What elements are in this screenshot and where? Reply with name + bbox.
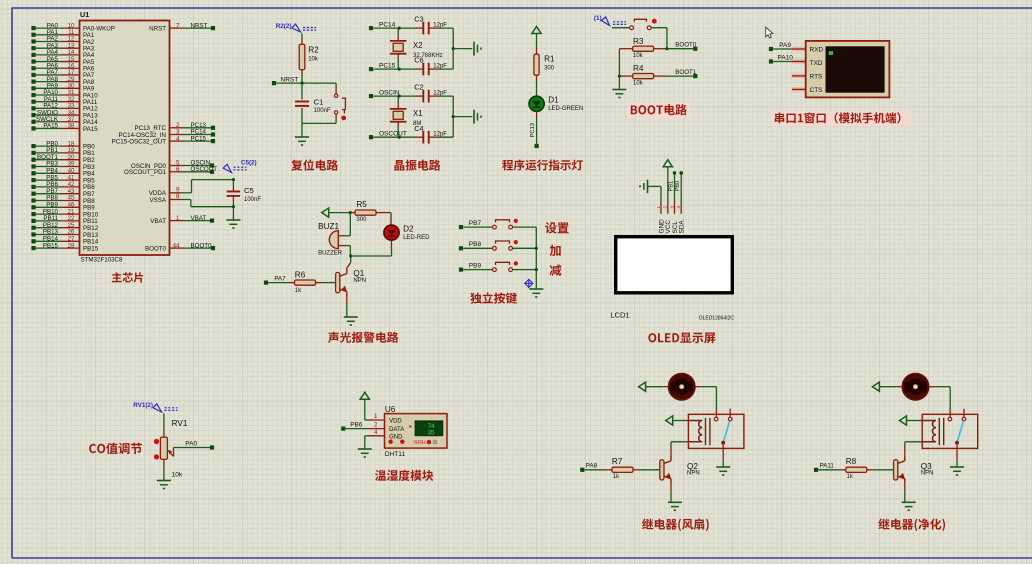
svg-text:32.768KHz: 32.768KHz xyxy=(413,53,443,59)
label 温湿度模块 xyxy=(375,470,433,481)
svg-text:BOOT0: BOOT0 xyxy=(145,245,167,252)
ground buttons xyxy=(529,288,543,290)
svg-text:10k: 10k xyxy=(172,472,183,479)
power symbol DHT11 xyxy=(360,392,369,399)
svg-text:(1): (1) xyxy=(594,15,602,22)
push button PB7 xyxy=(493,225,497,229)
wire Q2 emitter to ground xyxy=(670,484,672,491)
pin PA9 (pin 30) with wire and terminal xyxy=(34,87,63,89)
wire PA9 to RXD xyxy=(792,47,806,52)
pot adjust buttons xyxy=(154,439,159,444)
svg-text:PC15: PC15 xyxy=(379,62,396,69)
wire OLED SDA to PB0 xyxy=(680,175,682,202)
terminal PC14 xyxy=(369,26,373,30)
pin PA3 (pin 13) with wire and terminal xyxy=(34,47,63,49)
terminal PA9 xyxy=(769,47,773,51)
svg-text:PA8: PA8 xyxy=(586,463,598,470)
pin PB15 (pin 28) with wire and terminal xyxy=(34,247,63,249)
pin PC14 (pin 3) with wire and terminal xyxy=(170,134,185,136)
svg-text:1: 1 xyxy=(176,215,180,222)
power symbol relay coil xyxy=(900,416,907,425)
svg-text:NRST: NRST xyxy=(191,22,208,29)
power symbol OLED VCC xyxy=(667,167,669,201)
pin PA15 (pin 38) with wire and terminal xyxy=(34,127,63,129)
svg-text:PB8: PB8 xyxy=(469,241,482,248)
svg-text:NPN: NPN xyxy=(687,471,700,477)
wire Q3 collector to coil xyxy=(904,446,906,455)
DHT11 U6 body xyxy=(385,414,448,449)
ground crystal (sideways) xyxy=(473,42,475,56)
svg-text:PB0: PB0 xyxy=(675,181,681,192)
resistor R5 300 xyxy=(350,212,355,214)
wire VDD pin xyxy=(365,419,368,421)
pin PB3 (pin 39) with wire and terminal xyxy=(34,166,63,168)
power symbol motor Q2 xyxy=(639,382,646,391)
svg-text:C5(2): C5(2) xyxy=(241,159,257,166)
terminal PB6 xyxy=(341,427,345,431)
svg-text:12pF: 12pF xyxy=(433,22,447,28)
svg-text:PB15: PB15 xyxy=(43,242,59,249)
svg-text:VDD: VDD xyxy=(389,419,402,425)
ground under C5 xyxy=(226,219,240,221)
svg-text:100nF: 100nF xyxy=(314,108,331,114)
svg-text:PB1: PB1 xyxy=(668,181,674,192)
LCD1 OLED display body xyxy=(616,237,733,293)
svg-text:R8: R8 xyxy=(846,457,857,466)
relay RL-Q3 box xyxy=(922,414,978,448)
relay switch xyxy=(714,417,718,421)
node NRST-R2-C1 junction xyxy=(300,82,303,85)
label 晶振电路 xyxy=(394,160,440,171)
svg-text:OSCIN: OSCIN xyxy=(379,89,400,96)
wire R5 to D2 xyxy=(390,213,392,218)
pin SWCLK (pin 37) with wire and terminal xyxy=(34,121,63,123)
terminal NRST xyxy=(272,81,276,85)
pin PA0 (pin 10) with wire and terminal xyxy=(34,27,63,29)
resistor R1 300 xyxy=(536,48,538,55)
LED D1 LED-GREEN xyxy=(529,96,544,111)
svg-text:10k: 10k xyxy=(633,53,644,59)
pin BOOT0 (pin 44) with wire and terminal xyxy=(170,247,185,249)
svg-text:6: 6 xyxy=(176,166,180,173)
svg-text:X1: X1 xyxy=(413,109,423,118)
svg-text:NPN: NPN xyxy=(353,278,366,284)
label 加 xyxy=(550,245,561,256)
svg-text:1: 1 xyxy=(374,413,378,420)
svg-text:4: 4 xyxy=(676,206,681,209)
pin PB14 (pin 27) with wire and terminal xyxy=(34,240,63,242)
terminal PC13 bottom xyxy=(535,144,539,148)
wire buzzer bottom to collector node xyxy=(349,246,351,256)
svg-text:38: 38 xyxy=(68,123,75,130)
svg-text:R7: R7 xyxy=(612,457,623,466)
motor Q2-circuit xyxy=(669,374,695,400)
svg-text:R5: R5 xyxy=(356,200,367,209)
capacitor C3 12pF xyxy=(416,27,424,29)
svg-text:OLED12864I2C: OLED12864I2C xyxy=(699,316,735,322)
svg-text:Q3: Q3 xyxy=(921,462,932,471)
terminal PA10 xyxy=(769,59,773,63)
relay RL-Q2 box xyxy=(688,414,744,448)
pin NRST (pin 7) with wire and terminal xyxy=(170,27,185,29)
wire PB7 to button xyxy=(463,226,492,228)
node PB8 bus junction xyxy=(535,247,538,250)
svg-text:PA9: PA9 xyxy=(779,42,791,49)
label 设置 xyxy=(545,222,568,233)
svg-text:PC15: PC15 xyxy=(191,135,207,142)
svg-text:PA15: PA15 xyxy=(43,123,58,130)
wire button PB8 to bus xyxy=(513,247,537,249)
svg-text:TXD: TXD xyxy=(810,60,823,67)
transistor Q2 NPN xyxy=(660,460,664,480)
label 减 xyxy=(550,265,562,276)
svg-text:4: 4 xyxy=(176,135,180,142)
capacitor C1 100nF xyxy=(301,83,303,97)
node PB9 bus junction xyxy=(535,268,538,271)
svg-text:12pF: 12pF xyxy=(433,131,447,137)
label 程序运行指示灯 xyxy=(502,160,583,171)
DHT11 buttons xyxy=(388,440,392,444)
svg-text:C3: C3 xyxy=(414,15,423,24)
pin PA6 (pin 16) with wire and terminal xyxy=(34,67,63,69)
wire PB6 to DATA pin xyxy=(346,428,368,430)
pin PB0 (pin 18) with wire and terminal xyxy=(34,145,63,147)
svg-text:SDA: SDA xyxy=(679,220,686,234)
svg-text:OSCOUT_PD1: OSCOUT_PD1 xyxy=(124,169,167,176)
svg-text:D1: D1 xyxy=(548,96,559,105)
resistor R4 10k xyxy=(619,75,633,77)
svg-text:U6: U6 xyxy=(385,405,396,414)
resistor R7 1k xyxy=(585,469,606,471)
pin PB5 (pin 41) with wire and terminal xyxy=(34,179,63,181)
svg-text:STM32F103C8: STM32F103C8 xyxy=(81,257,124,264)
svg-text:C5: C5 xyxy=(244,186,254,195)
svg-text:R6: R6 xyxy=(295,270,306,279)
node Q1 collector junction xyxy=(349,254,352,257)
svg-text:CTS: CTS xyxy=(810,87,824,94)
svg-text:28: 28 xyxy=(68,242,75,249)
pin VSSA (pin 8) wire to C5 bottom rail xyxy=(170,199,182,201)
svg-text:DATA: DATA xyxy=(389,427,404,433)
capacitor C4 12pF xyxy=(416,136,424,138)
wire R3-R4 left bus xyxy=(618,49,620,76)
node OSCIN junction xyxy=(398,95,401,98)
wire RV1 wiper to PA0 xyxy=(174,447,211,449)
pin PA11 (pin 32) with wire and terminal xyxy=(34,101,63,103)
svg-text:1: 1 xyxy=(656,206,661,209)
svg-text:RV1: RV1 xyxy=(172,419,188,428)
wire PC14 row xyxy=(373,27,415,29)
power symbol motor Q3 xyxy=(872,382,879,391)
svg-text:BUZZER: BUZZER xyxy=(318,250,343,256)
svg-text:VBAT: VBAT xyxy=(191,215,207,222)
terminal PA0 xyxy=(210,445,214,449)
svg-text:VSSA: VSSA xyxy=(149,197,166,204)
wire C1 bottom row xyxy=(302,122,336,124)
buttons ground bus xyxy=(535,227,537,288)
chip label 主芯片 xyxy=(112,272,143,282)
wire Q1 collector xyxy=(350,256,352,263)
svg-text:7: 7 xyxy=(176,22,180,29)
wire motor to relay switch xyxy=(929,386,935,388)
svg-text:BOOT0: BOOT0 xyxy=(191,242,213,249)
terminal PA8 xyxy=(580,468,584,472)
chip U1 body STM32F103C8 xyxy=(80,21,170,256)
virtual terminal screen xyxy=(826,46,885,92)
wire motor to relay switch xyxy=(696,386,702,388)
svg-text:R2: R2 xyxy=(308,46,319,55)
pin PA10 (pin 31) with wire and terminal xyxy=(34,94,63,96)
boot button xyxy=(612,27,630,29)
wire Q1 emitter to ground xyxy=(346,297,348,303)
terminal PA11 xyxy=(814,468,818,472)
pin CTS stub xyxy=(792,87,806,92)
node PC14 junction xyxy=(398,27,401,30)
wire boot button to R3 node xyxy=(651,27,667,29)
wire PC15 row xyxy=(373,68,415,70)
OLED pin stubs xyxy=(660,201,662,214)
svg-text:R1: R1 xyxy=(544,55,555,64)
ground RV1 xyxy=(157,480,171,482)
wire C5 to ground xyxy=(232,207,234,220)
ground reset circuit xyxy=(295,136,309,138)
power symbol alarm xyxy=(322,208,329,217)
ground DHT11 xyxy=(358,448,372,450)
ground OLED (sideways left) xyxy=(647,180,649,194)
wire D2 bottom to collector node xyxy=(351,255,392,257)
label OLED显示屏 xyxy=(648,333,715,344)
pin PA4 (pin 14) with wire and terminal xyxy=(34,54,63,56)
wire relay common to ground xyxy=(956,445,958,461)
pin PB12 (pin 25) with wire and terminal xyxy=(34,227,63,229)
mouse cursor xyxy=(766,27,773,38)
ground Q2 xyxy=(668,501,682,503)
svg-text:DHT11: DHT11 xyxy=(385,451,405,458)
wire D1 to PC13 terminal xyxy=(536,111,538,117)
pin VDDA (pin 9) wire to C5 top rail xyxy=(170,192,182,194)
svg-text:PA10: PA10 xyxy=(778,54,794,61)
svg-text:12pF: 12pF xyxy=(433,63,447,69)
svg-text:U1: U1 xyxy=(80,10,89,19)
svg-text:1k: 1k xyxy=(613,474,620,480)
wire NRST row xyxy=(276,82,336,84)
terminal PC15 xyxy=(369,67,373,71)
svg-text:RV1(2): RV1(2) xyxy=(133,402,153,409)
svg-text:OSCOUT: OSCOUT xyxy=(191,166,218,173)
wire OLED GND to ground xyxy=(660,186,662,201)
motor Q3-circuit xyxy=(903,374,929,400)
svg-text:X2: X2 xyxy=(413,41,423,50)
pin PB13 (pin 26) with wire and terminal xyxy=(34,234,63,236)
relay switch xyxy=(948,417,952,421)
resistor R8 1k xyxy=(818,469,839,471)
wire C1 to ground xyxy=(301,123,303,136)
label CO值调节 xyxy=(89,443,142,455)
wire crystal right bus xyxy=(452,28,454,69)
svg-text:12pF: 12pF xyxy=(433,90,447,96)
pin PB6 (pin 42) with wire and terminal xyxy=(34,186,63,188)
svg-text:2: 2 xyxy=(663,206,668,209)
wire PB9 to button xyxy=(463,269,492,271)
pin PB4 (pin 40) with wire and terminal xyxy=(34,172,63,174)
relay coil xyxy=(688,421,702,442)
pin PA2 (pin 12) with wire and terminal xyxy=(34,40,63,42)
svg-text:PA11: PA11 xyxy=(820,463,835,470)
pin PA8 (pin 29) with wire and terminal xyxy=(34,81,63,83)
label 继电器(净化) xyxy=(878,519,945,532)
svg-text:Q2: Q2 xyxy=(687,462,698,471)
relay coil xyxy=(922,421,936,442)
svg-text:8M: 8M xyxy=(413,121,421,127)
node C5 bottom junction xyxy=(232,205,235,208)
wire Q2 collector to coil xyxy=(670,446,672,455)
svg-text:R4: R4 xyxy=(633,64,644,73)
node R4 left junction xyxy=(618,75,621,78)
wire OLED SCL to PB1 xyxy=(674,175,676,202)
pin PB11 (pin 22) with wire and terminal xyxy=(34,220,63,222)
pin OSCIN_PD0 (pin 5) with wire and terminal xyxy=(170,165,185,167)
pin PA12 (pin 33) with wire and terminal xyxy=(34,107,63,109)
svg-text:8: 8 xyxy=(176,193,180,200)
svg-text:100nF: 100nF xyxy=(244,197,261,203)
svg-text:44: 44 xyxy=(173,242,180,249)
wire PA10 to TXD xyxy=(792,59,806,64)
pin OSCOUT_PD1 (pin 6) with wire and terminal xyxy=(170,171,185,173)
wire button PB9 to bus xyxy=(513,269,537,271)
svg-text:PC15-OSC32_OUT: PC15-OSC32_OUT xyxy=(112,138,167,145)
wire Q3 emitter to ground xyxy=(904,484,906,491)
pin PC15 (pin 4) with wire and terminal xyxy=(170,140,185,142)
crystal X1 8M xyxy=(397,96,399,104)
label 继电器(风扇) xyxy=(642,519,709,532)
node R5 left junction xyxy=(349,211,352,214)
svg-text:10k: 10k xyxy=(308,57,319,63)
svg-text:PB6: PB6 xyxy=(350,421,363,428)
pin PB9 (pin 46) with wire and terminal xyxy=(34,206,63,208)
capacitor C5 100nF xyxy=(232,180,234,188)
svg-text:C2: C2 xyxy=(414,83,423,92)
terminal BOOT1 xyxy=(693,74,697,78)
svg-text:OSCOUT: OSCOUT xyxy=(379,130,407,137)
svg-text:1k: 1k xyxy=(295,288,302,294)
svg-text:10k: 10k xyxy=(633,80,644,86)
capacitor C6 12pF xyxy=(416,68,424,70)
ground Q1 xyxy=(344,316,358,318)
reset push button xyxy=(335,83,337,86)
resistor R3 10k xyxy=(619,48,633,50)
label 独立按键 xyxy=(470,292,517,303)
svg-text:Q1: Q1 xyxy=(353,269,364,278)
crystal X2 32.768KHz xyxy=(397,28,399,35)
ground relay switch xyxy=(950,466,964,468)
wire BOOT0 net xyxy=(667,48,693,50)
pin PB1 (pin 19) with wire and terminal xyxy=(34,152,63,154)
ground relay switch xyxy=(716,466,730,468)
svg-text:PA15: PA15 xyxy=(83,126,98,133)
svg-text:R2(2): R2(2) xyxy=(276,23,292,30)
svg-text:35: 35 xyxy=(428,429,435,436)
node PC15 junction xyxy=(398,68,401,71)
svg-text:LCD1: LCD1 xyxy=(610,311,629,320)
power symbol relay coil xyxy=(666,416,673,425)
svg-text:2: 2 xyxy=(374,422,378,429)
svg-text:BUZ1: BUZ1 xyxy=(318,222,339,231)
transistor Q3 NPN xyxy=(894,460,898,480)
node OSCOUT junction xyxy=(398,136,401,139)
pin PC13 (pin 2) with wire and terminal xyxy=(170,127,185,129)
terminal OSCIN xyxy=(369,94,373,98)
wire OSCOUT row xyxy=(373,136,415,138)
wire OSCIN row xyxy=(373,95,415,97)
svg-text:LED-RED: LED-RED xyxy=(403,235,430,241)
svg-text:300: 300 xyxy=(356,217,367,223)
push button PB8 xyxy=(493,246,497,250)
pin RTS stub xyxy=(792,74,806,79)
resistor R2 10k xyxy=(301,34,303,40)
svg-text:PC13: PC13 xyxy=(530,123,536,138)
pin PA7 (pin 17) with wire and terminal xyxy=(34,74,63,76)
svg-text:PB15: PB15 xyxy=(83,245,99,252)
power symbol indicator xyxy=(532,27,541,34)
wire PB8 to button xyxy=(463,247,492,249)
terminal PB9 xyxy=(459,268,463,272)
terminal PB8 xyxy=(459,246,463,250)
label 声光报警电路 xyxy=(328,332,398,343)
label BOOT电路 xyxy=(627,102,689,118)
svg-text:3: 3 xyxy=(669,206,674,209)
svg-text:NRST: NRST xyxy=(149,25,166,32)
terminal BOOT0 xyxy=(693,47,697,51)
svg-text:PB7: PB7 xyxy=(469,220,482,227)
resistor R6 1k xyxy=(268,282,289,284)
ground BOOT circuit xyxy=(612,89,626,91)
svg-text:NPN: NPN xyxy=(921,471,934,477)
pin PA5 (pin 15) with wire and terminal xyxy=(34,61,63,63)
pin VBAT (pin 1) with wire and terminal xyxy=(170,220,185,222)
svg-text:LED-GREEN: LED-GREEN xyxy=(548,106,583,112)
pin PB10 (pin 21) with wire and terminal xyxy=(34,213,63,215)
node R3 right junction xyxy=(665,47,668,50)
svg-text:PB9: PB9 xyxy=(469,262,482,269)
terminal PA7 xyxy=(264,281,268,285)
pin BOOT1 (pin 20) with wire and terminal xyxy=(34,159,63,161)
svg-text:%RH: %RH xyxy=(414,440,426,446)
DHT11 display xyxy=(415,421,443,436)
svg-text:1k: 1k xyxy=(847,474,854,480)
svg-text:GND: GND xyxy=(389,434,403,440)
origin marker xyxy=(525,279,533,287)
wire BOOT1 net xyxy=(667,75,693,77)
wire GND pin to ground xyxy=(368,435,385,437)
svg-text:PA7: PA7 xyxy=(274,275,286,282)
svg-text:C1: C1 xyxy=(314,98,324,107)
svg-text:NRST: NRST xyxy=(281,76,299,83)
svg-text:RXD: RXD xyxy=(810,47,824,54)
transistor Q1 NPN xyxy=(336,272,340,292)
wire button PB7 to bus xyxy=(513,226,537,228)
label 串口1窗口（模拟手机端） xyxy=(771,110,910,126)
ground crystal (sideways) xyxy=(473,110,475,124)
push button PB9 xyxy=(493,268,497,272)
terminal PB7 xyxy=(459,225,463,229)
svg-text:300: 300 xyxy=(544,66,555,72)
pin SWDIO (pin 34) with wire and terminal xyxy=(34,114,63,116)
pin PA1 (pin 11) with wire and terminal xyxy=(34,34,63,36)
label 复位电路 xyxy=(291,159,338,170)
wire crystal right bus xyxy=(452,96,454,137)
pin PB8 (pin 45) with wire and terminal xyxy=(34,200,63,202)
pot RV1 10k xyxy=(163,414,165,431)
